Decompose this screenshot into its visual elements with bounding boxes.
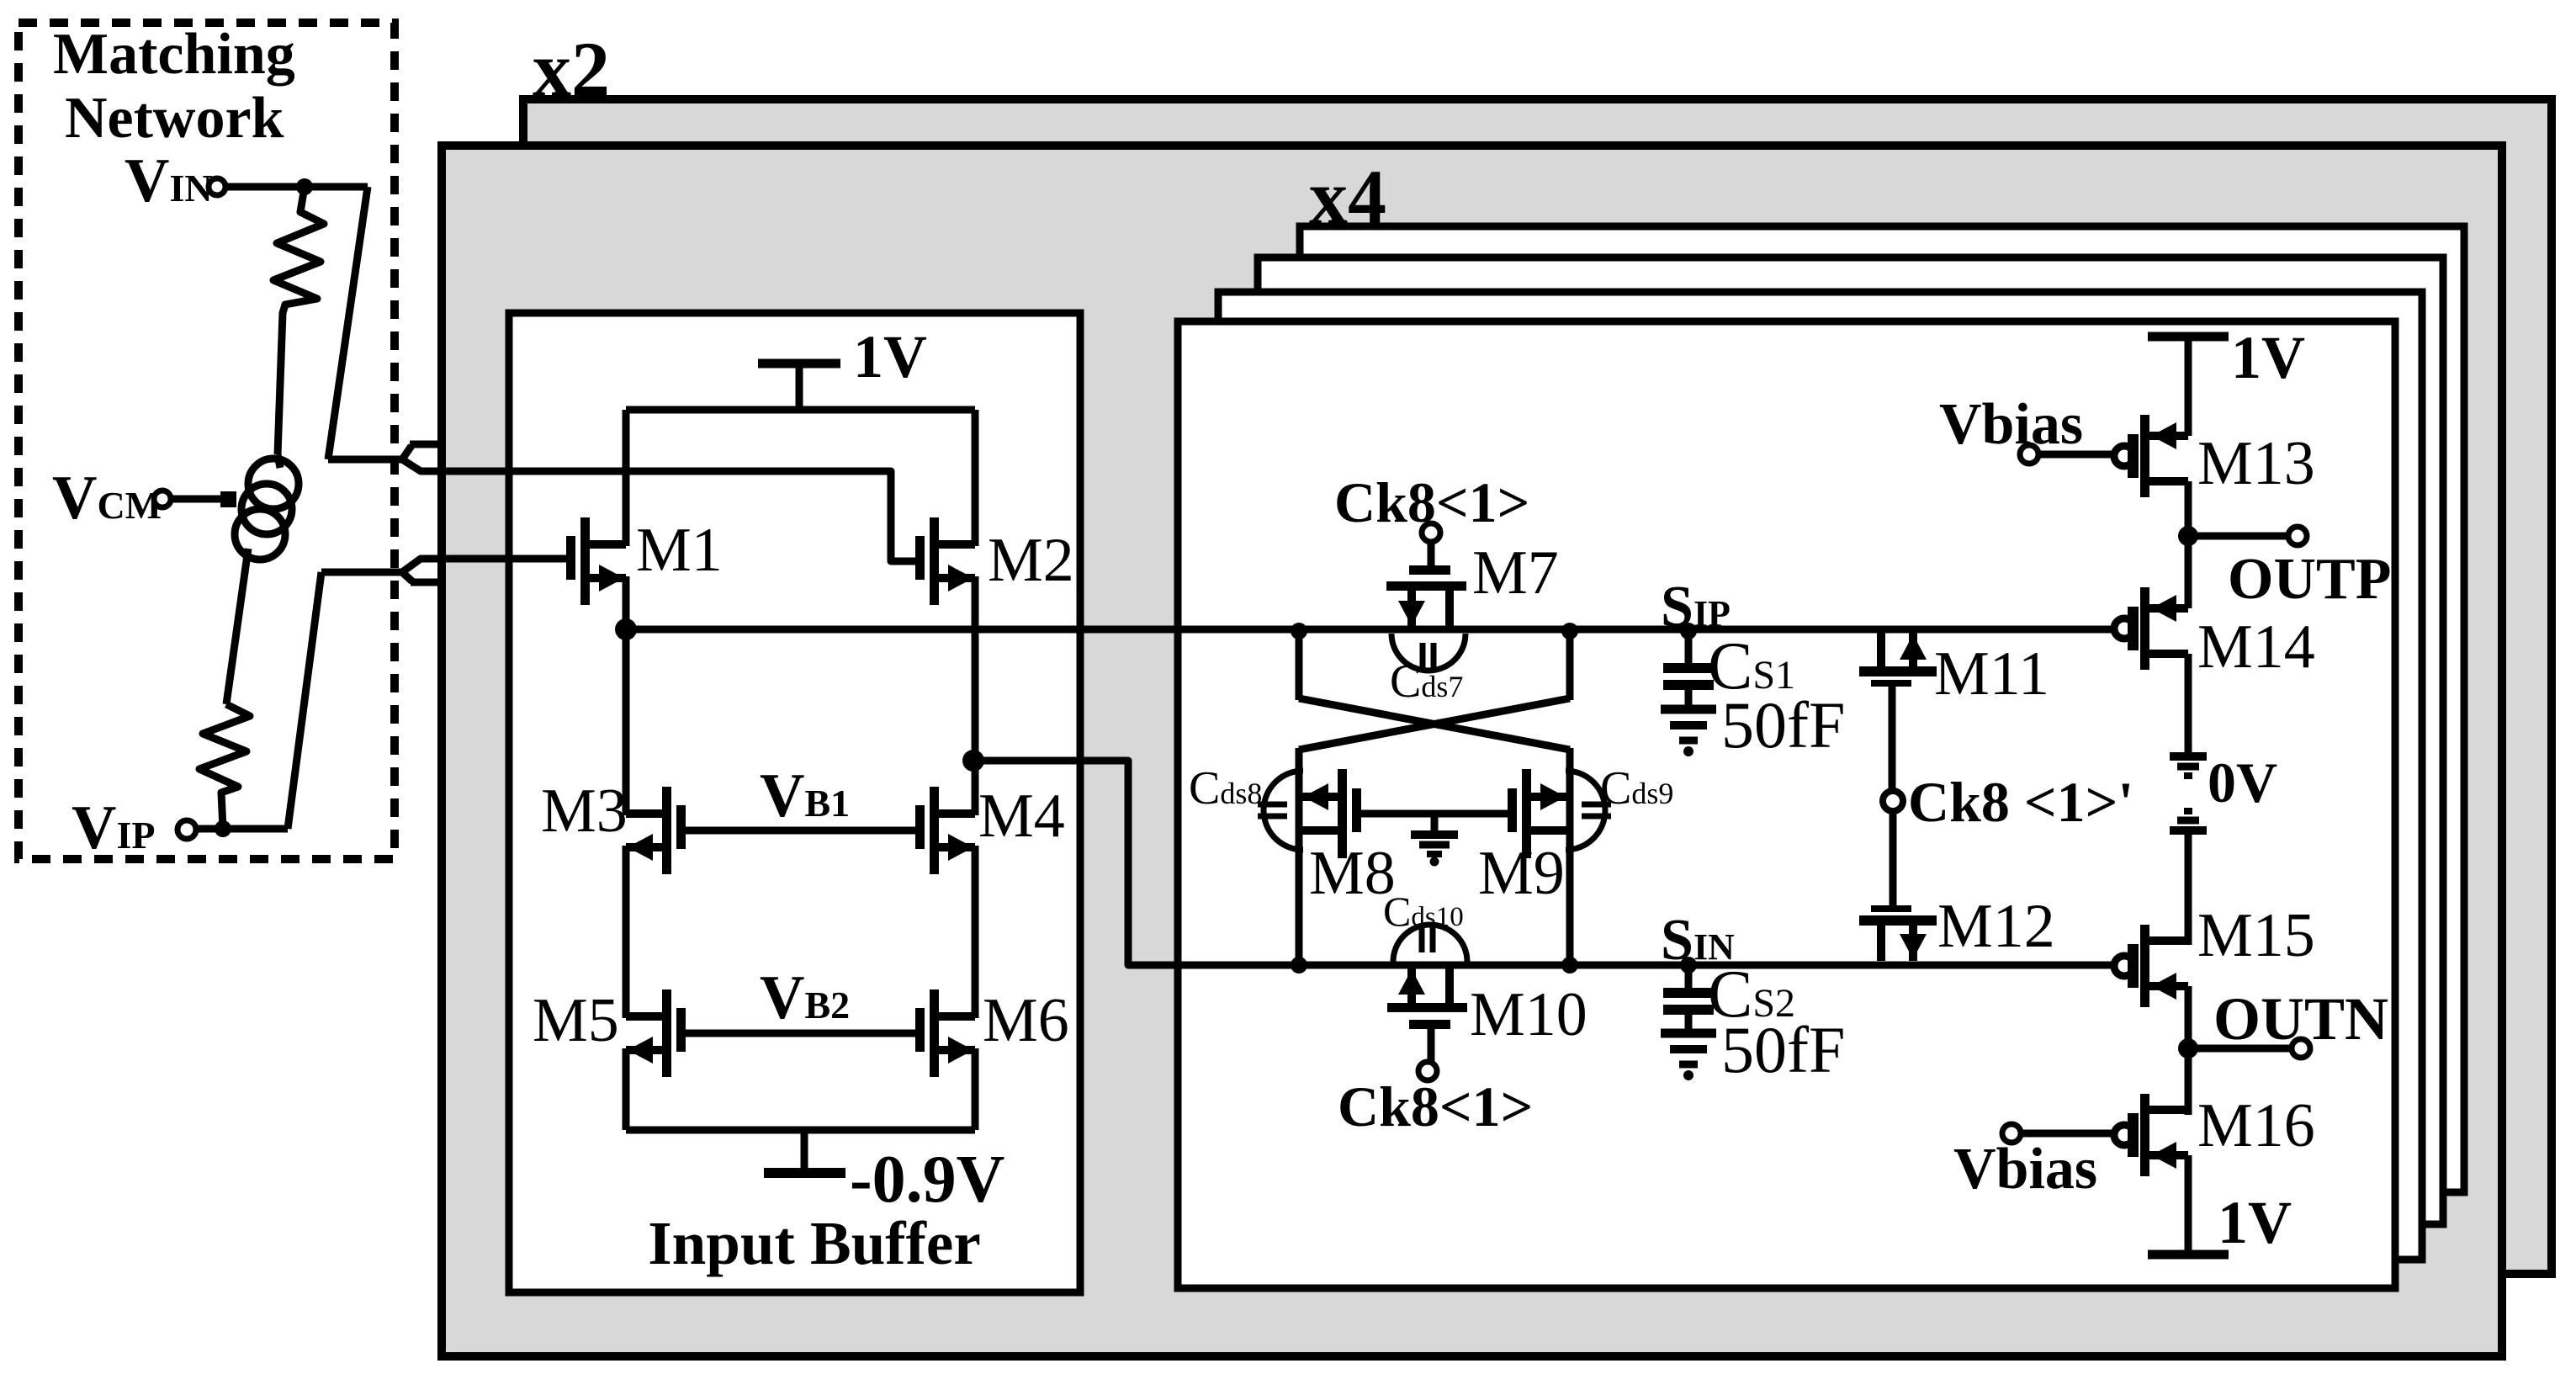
svg-text:M4: M4 <box>978 782 1065 851</box>
svg-text:OUTN: OUTN <box>2213 985 2388 1053</box>
svg-text:M9: M9 <box>1478 839 1565 908</box>
svg-text:Input Buffer: Input Buffer <box>648 1209 980 1277</box>
svg-text:M10: M10 <box>1470 980 1587 1049</box>
svg-text:M14: M14 <box>2197 613 2315 682</box>
svg-text:M7: M7 <box>1472 538 1559 607</box>
svg-text:M3: M3 <box>541 777 628 846</box>
svg-text:Matching: Matching <box>53 22 295 87</box>
svg-text:-0.9V: -0.9V <box>850 1143 1004 1217</box>
svg-text:M2: M2 <box>988 526 1074 595</box>
svg-text:M1: M1 <box>636 516 723 585</box>
svg-text:x4: x4 <box>1309 154 1386 240</box>
svg-text:50fF: 50fF <box>1721 1013 1845 1086</box>
svg-text:Ck8<1>: Ck8<1> <box>1334 470 1529 534</box>
svg-text:50fF: 50fF <box>1721 688 1845 761</box>
svg-text:x2: x2 <box>533 26 610 112</box>
svg-text:1V: 1V <box>2231 324 2305 391</box>
svg-text:M11: M11 <box>1934 639 2049 708</box>
svg-text:Ck8<1>: Ck8<1> <box>1338 1074 1533 1138</box>
svg-text:1V: 1V <box>2218 1189 2292 1256</box>
svg-text:M12: M12 <box>1937 892 2055 961</box>
svg-text:Vbias: Vbias <box>1953 1137 2097 1202</box>
svg-text:Network: Network <box>65 86 284 151</box>
svg-text:OUTP: OUTP <box>2228 547 2391 612</box>
svg-text:M15: M15 <box>2197 901 2315 970</box>
svg-text:M6: M6 <box>983 986 1069 1055</box>
svg-text:0V: 0V <box>2208 751 2277 814</box>
svg-text:Ck8 <1>': Ck8 <1>' <box>1908 770 2133 834</box>
svg-text:Vbias: Vbias <box>1939 392 2083 457</box>
svg-text:M13: M13 <box>2197 429 2315 498</box>
svg-text:M5: M5 <box>533 986 619 1055</box>
svg-text:M16: M16 <box>2197 1091 2315 1160</box>
svg-text:1V: 1V <box>853 323 927 390</box>
